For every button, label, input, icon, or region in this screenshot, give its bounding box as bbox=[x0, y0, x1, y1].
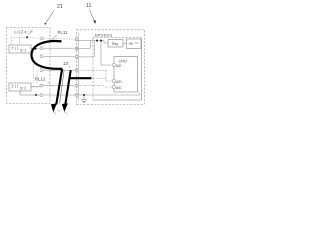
IC2 output link bbox=[31, 85, 40, 88]
A/D port 2 bbox=[112, 79, 115, 82]
svg-text:Reg: Reg bbox=[112, 42, 118, 46]
junction dot bbox=[96, 40, 98, 42]
A/D port 1 bbox=[112, 63, 115, 66]
svg-text:IC 2: IC 2 bbox=[20, 86, 26, 90]
junction dot bbox=[26, 36, 28, 38]
dashed continuation of thick PL12 bar bbox=[94, 77, 107, 79]
svg-text:EPS-ECU: EPS-ECU bbox=[95, 32, 112, 37]
hall IC 1 box bbox=[9, 45, 31, 53]
wire row PL11 supply (dotted) bbox=[44, 37, 76, 40]
riser from row2 bbox=[90, 41, 92, 49]
svg-text:CPU: CPU bbox=[119, 58, 128, 63]
svg-text:+B: +B bbox=[129, 42, 134, 46]
svg-text:A/D: A/D bbox=[116, 80, 122, 84]
thick highlighted PL12 bar bbox=[69, 77, 92, 79]
EPS-ECU dashed box bbox=[93, 38, 142, 101]
outer ECU assembly dashed box bbox=[77, 30, 145, 105]
companion thin wire bbox=[60, 70, 65, 103]
dashed vertical to A/D2 bbox=[105, 70, 107, 81]
dashed verticals to IC2 bbox=[34, 57, 38, 83]
connector bus line bbox=[77, 33, 79, 100]
wire row 5 bbox=[43, 85, 75, 87]
leader line for 11 bbox=[90, 10, 95, 21]
hatch ticks at arrow tips bbox=[53, 110, 67, 115]
ground symbol bbox=[83, 95, 85, 100]
leader for PL12 bbox=[48, 82, 51, 85]
Reg box bbox=[108, 40, 123, 48]
junction dot at ground tap bbox=[83, 94, 85, 96]
thick down wire right bbox=[65, 70, 70, 104]
supply dotted line above hall IC1 bbox=[12, 36, 28, 38]
CPU box bbox=[114, 57, 138, 93]
A/D port 3 bbox=[112, 85, 115, 88]
svg-text:PL11: PL11 bbox=[58, 30, 68, 35]
dashed signal row 4 inside ECU bbox=[80, 69, 107, 71]
terminal circle bbox=[41, 37, 44, 40]
arrowhead right bbox=[62, 103, 68, 112]
IC2 ground link bbox=[20, 91, 40, 95]
dotted link junction to terminal bbox=[27, 37, 40, 38]
thick down wire left bbox=[56, 69, 62, 105]
riser from row3 bbox=[93, 41, 95, 57]
power row inside ECU bbox=[78, 40, 108, 43]
IC1 output link bbox=[31, 48, 36, 50]
svg-text:13': 13' bbox=[63, 61, 69, 66]
torque sensor label (katakana simulated) bbox=[15, 31, 33, 35]
ground wire row inside ECU bbox=[78, 92, 139, 95]
leader for 13' bbox=[69, 66, 70, 69]
dashed drop wires to IC1 bbox=[12, 37, 20, 45]
feed line to A/D 1 bbox=[101, 42, 112, 66]
arrowhead left bbox=[51, 103, 57, 112]
leader line for 21 bbox=[46, 11, 54, 23]
svg-text:PL12: PL12 bbox=[35, 77, 46, 82]
junction dot bbox=[100, 40, 102, 42]
leader for PL11 bbox=[52, 35, 57, 40]
svg-text:21: 21 bbox=[57, 4, 63, 10]
svg-text:A/D: A/D bbox=[116, 86, 122, 90]
svg-text:11: 11 bbox=[86, 3, 91, 9]
wire row 4 bbox=[43, 69, 75, 71]
wire row 2 bbox=[38, 47, 76, 49]
torque sensor dashed box bbox=[7, 28, 51, 104]
thick highlighted PL11 loop bbox=[32, 41, 63, 69]
svg-text:A/D: A/D bbox=[116, 64, 122, 68]
hall IC 2 box bbox=[9, 83, 31, 91]
wire row 6 ground bbox=[42, 94, 76, 96]
wire row 3 bbox=[43, 55, 75, 58]
+B box bbox=[127, 39, 142, 49]
svg-text:IC 1: IC 1 bbox=[20, 48, 26, 52]
dash-dot row 5 to A/D3 bbox=[80, 86, 113, 87]
link Reg to +B bbox=[123, 42, 127, 44]
